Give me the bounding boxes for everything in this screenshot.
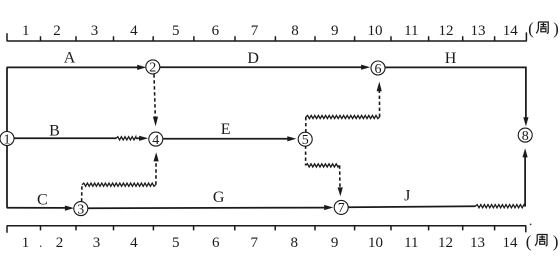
activity A arrow line [7, 66, 139, 68]
svg-text:7: 7 [251, 235, 259, 251]
activity J arrowhead into node 8 bottom [523, 148, 528, 157]
dummy node5-node7 dashed drop into node 7 with arrowhead [339, 165, 341, 188]
svg-text:J: J [404, 187, 410, 204]
svg-text:G: G [213, 189, 225, 206]
top ruler unit label zhou character [536, 22, 548, 33]
bottom ruler unit label zhou character [535, 235, 547, 246]
node 1 event circle [0, 132, 14, 148]
top ruler unit label (zhou = weeks) parentheses [528, 19, 559, 38]
svg-text:(: ( [526, 232, 532, 251]
activity J free-float wavy line [475, 205, 524, 208]
activity D arrowhead [361, 65, 370, 70]
svg-text:13: 13 [470, 235, 485, 251]
node 2 event circle [146, 60, 160, 76]
node 6 event circle [371, 61, 385, 77]
bottom ruler end ticks [7, 226, 526, 233]
node 8 event circle [518, 128, 532, 144]
node 4 event circle [149, 132, 163, 148]
svg-text:4: 4 [130, 235, 138, 251]
activity B free-float wavy line [116, 137, 136, 140]
svg-text:11: 11 [404, 235, 418, 251]
activity B short lead and arrowhead into node 4 [136, 137, 140, 139]
scan speck near bottom numbers 1 and 2 [40, 246, 42, 248]
activity D arrow line [159, 66, 361, 68]
svg-text:1: 1 [4, 132, 11, 147]
dummy arrow from node 2 down to node 4 dashed [154, 74, 155, 117]
svg-text:14: 14 [503, 23, 519, 39]
svg-text:12: 12 [438, 235, 453, 251]
bottom ruler unit label parentheses [526, 232, 559, 251]
activity G arrow line [87, 207, 324, 210]
dummy node5-node6 dashed riser into node 6 with arrowhead [378, 91, 380, 117]
node 7 event circle [334, 200, 348, 216]
node 3 event circle [74, 202, 88, 218]
svg-text:5: 5 [302, 133, 309, 148]
svg-text:2: 2 [53, 23, 61, 39]
svg-text:13: 13 [471, 23, 486, 39]
top ruler end ticks [7, 32, 526, 41]
svg-text:5: 5 [172, 23, 180, 39]
bottom time-scale ruler line [7, 225, 527, 227]
svg-text:7: 7 [338, 201, 345, 216]
activity E arrowhead [287, 136, 296, 141]
svg-text:H: H [445, 50, 457, 67]
dummy node5-node7 free-float wavy line [306, 164, 340, 167]
scan speck right of bottom ruler end [530, 224, 532, 226]
dummy node5-node6 free-float wavy line [306, 115, 380, 118]
svg-text:6: 6 [212, 235, 220, 251]
activity C arrowhead [65, 206, 74, 211]
svg-text:5: 5 [172, 235, 180, 251]
svg-text:2: 2 [149, 61, 156, 76]
svg-text:8: 8 [291, 235, 299, 251]
dummy from node 3: free-float wavy line to below node 4 [82, 183, 156, 186]
bottom ruler week ticks [41, 226, 495, 231]
dummy from node 5 up: dashed riser [305, 117, 307, 132]
activity J line solid part [348, 205, 476, 208]
svg-text:9: 9 [331, 23, 339, 39]
top time-scale ruler line [7, 40, 527, 42]
activity B arrow line solid part [13, 137, 117, 139]
svg-text:B: B [49, 123, 60, 140]
svg-text:A: A [64, 50, 76, 67]
svg-text:1: 1 [22, 23, 30, 39]
svg-text:8: 8 [291, 23, 299, 39]
svg-text:12: 12 [439, 23, 454, 39]
svg-text:14: 14 [503, 235, 519, 251]
svg-text:C: C [37, 192, 48, 209]
svg-text:11: 11 [404, 23, 418, 39]
activity A arrowhead [137, 65, 146, 70]
svg-text:3: 3 [91, 23, 99, 39]
node 5 event circle [298, 132, 312, 148]
svg-text:3: 3 [77, 202, 84, 217]
activity H arrowhead into node 8 [523, 117, 528, 126]
activity C arrow line [7, 207, 66, 209]
svg-text:7: 7 [251, 23, 259, 39]
svg-text:8: 8 [522, 129, 529, 144]
activity H line horizontal then corner down to node 8 [385, 67, 526, 118]
top ruler week ticks [41, 36, 495, 41]
bottom ruler week numbers 1-14 [22, 235, 518, 251]
activity J corner wire up toward node 8 [524, 157, 526, 207]
svg-text:6: 6 [375, 62, 382, 77]
svg-text:): ) [553, 19, 559, 38]
activity G arrowhead [324, 205, 333, 210]
activity E arrow line [163, 138, 288, 140]
svg-text:10: 10 [368, 235, 383, 251]
top ruler week numbers 1-14 [22, 23, 518, 39]
svg-text:D: D [247, 50, 259, 67]
svg-text:4: 4 [130, 23, 138, 39]
svg-text:3: 3 [93, 235, 101, 251]
left vertical border wire from node 1 up to activity A and down to activity C [6, 67, 8, 207]
svg-text:10: 10 [368, 23, 383, 39]
svg-text:1: 1 [22, 235, 30, 251]
svg-text:9: 9 [331, 235, 339, 251]
dummy from node 3: dashed riser into node 4 with arrowhead [155, 161, 157, 185]
svg-text:2: 2 [56, 235, 64, 251]
svg-text:): ) [553, 232, 559, 251]
dummy from node 3: dashed riser [81, 185, 83, 202]
svg-text:6: 6 [212, 23, 220, 39]
svg-text:(: ( [528, 19, 534, 38]
svg-text:E: E [221, 121, 231, 138]
svg-text:4: 4 [152, 133, 159, 148]
dummy node5-node7 dashed drop [305, 146, 307, 166]
